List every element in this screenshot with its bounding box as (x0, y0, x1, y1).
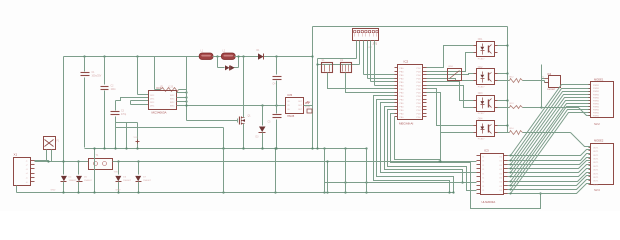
svg-text:PWM1: PWM1 (593, 106, 600, 108)
svg-text:SWC: SWC (170, 98, 175, 100)
wire x440 drop to bus (440, 133, 442, 160)
capacitor C3 (115, 101, 117, 111)
wire JP1 pins down (356, 41, 358, 59)
svg-text:IC1: IC1 (157, 86, 162, 90)
svg-text:OUT1: OUT1 (593, 181, 599, 183)
wire Q2 down to IC2 (346, 73, 395, 93)
svg-text:OUT1: OUT1 (593, 155, 599, 157)
svg-text:SV-2: SV-2 (594, 122, 600, 126)
wire left corner down x63.4 (63, 57, 65, 175)
wire lower bus y161.2 (35, 161, 89, 163)
wire fuse to bus (46, 150, 48, 162)
wire IC2 to OK4 (427, 89, 474, 126)
diode D1 (258, 53, 264, 59)
svg-text:PC817: PC817 (478, 138, 485, 140)
fuse F1 (44, 137, 56, 150)
svg-text:DRC: DRC (150, 102, 155, 104)
svg-text:IC2: IC2 (404, 60, 409, 64)
svg-text:OK1: OK1 (478, 39, 483, 41)
capacitor C1 (83, 55, 85, 57)
crystal Q2 (341, 63, 352, 73)
optocoupler OK2 (477, 69, 495, 85)
wire X1 bottom to gnd bus (16, 186, 18, 193)
svg-text:SV-3: SV-3 (594, 188, 600, 192)
svg-text:DRC: DRC (150, 98, 155, 100)
diode D3 zener (262, 106, 264, 126)
svg-text:GND: GND (51, 190, 56, 192)
wire IC1 out to regulator y104.7 (177, 105, 286, 107)
svg-text:OUT1: OUT1 (593, 184, 599, 186)
wire IC2 to OK1 (427, 46, 474, 68)
wire L2 to D1 (235, 56, 257, 58)
resistor R13 (510, 106, 523, 109)
wire top supply rail y56 (64, 56, 313, 58)
svg-text:OK3: OK3 (478, 93, 483, 95)
svg-text:PWM1: PWM1 (593, 88, 600, 90)
header MODE2 (591, 144, 614, 185)
IC4 RTC (549, 76, 561, 88)
wire diagonal fan to MODE1 (511, 85, 591, 156)
svg-text:OUT1: OUT1 (593, 147, 599, 149)
wire main mid bus y160.9 (113, 161, 477, 163)
svg-text:DS1307: DS1307 (547, 89, 556, 91)
wire IC1 right pins to x186 (177, 92, 187, 94)
optocoupler OK4 (477, 121, 495, 137)
wire regulator out (304, 105, 313, 107)
svg-text:PC817: PC817 (478, 59, 485, 61)
connector X1 (14, 158, 31, 186)
inductor L1 (187, 56, 200, 58)
svg-text:PWM1: PWM1 (593, 94, 600, 96)
wire mosfet source down (243, 124, 245, 149)
wire x275 low drop (275, 149, 277, 193)
wire bus nested L from IC2 lower-left pins (374, 96, 450, 193)
svg-text:PWM1: PWM1 (593, 116, 600, 118)
svg-text:470p: 470p (121, 114, 127, 116)
svg-text:1N4007: 1N4007 (143, 180, 151, 182)
capacitor C5 (276, 106, 278, 114)
IC5 voltage regulator 78L05 (286, 98, 304, 114)
wire x323 x344 x365 drops (324, 149, 326, 183)
svg-text:OUT1: OUT1 (593, 166, 599, 168)
wire horizontals to MODE2 (508, 150, 591, 156)
svg-text:OUT1: OUT1 (593, 162, 599, 164)
wire mid bus y147.7 (85, 148, 367, 150)
svg-text:100u/25V: 100u/25V (92, 75, 102, 77)
wire x94.5 drop (94, 149, 96, 193)
wire OK3 out to MODE1 (498, 107, 510, 109)
wire x186 vertical (186, 57, 188, 121)
svg-text:MODE1: MODE1 (594, 78, 604, 82)
svg-text:1N4007: 1N4007 (69, 180, 77, 182)
svg-text:MEGA8-AI: MEGA8-AI (399, 122, 414, 126)
op-amp IC2 MEGA8-AI (398, 65, 423, 120)
svg-text:IC3: IC3 (484, 148, 489, 152)
optocoupler OK1 (477, 42, 495, 57)
wire x126 drop (126, 123, 128, 148)
svg-text:X1: X1 (14, 153, 18, 157)
capacitor C2 (103, 55, 105, 57)
diode D2 parallel loop (217, 57, 219, 68)
svg-text:SWC: SWC (170, 102, 175, 104)
wire C3 top to IC1 (116, 98, 143, 101)
svg-text:SWC: SWC (170, 106, 175, 108)
svg-text:SWC: SWC (170, 95, 175, 97)
wire y127 bus (116, 127, 224, 129)
diode D5 (78, 162, 80, 175)
wire vertical main x311.6 (312, 27, 314, 149)
wire jp1 branch left x317 (318, 58, 357, 60)
svg-text:RN1: RN1 (449, 66, 454, 68)
svg-text:OK2: OK2 (478, 67, 483, 69)
wire IC1 left pins (143, 94, 149, 96)
wire IC3 right pins fan (504, 155, 508, 157)
svg-text:1N4007: 1N4007 (123, 180, 131, 182)
svg-text:DRC: DRC (150, 95, 155, 97)
wire x222.8 low drop (223, 149, 225, 193)
wire mosfet drain up (243, 57, 245, 118)
svg-text:PWM1: PWM1 (593, 113, 600, 115)
svg-text:PWM1: PWM1 (593, 85, 600, 87)
wire D1 to x311 (265, 56, 313, 58)
svg-text:IC4: IC4 (547, 73, 552, 76)
wire jp1 pins to IC2 pins rows3-6 (364, 74, 395, 76)
svg-text:PC817: PC817 (478, 113, 485, 115)
supply symbol VCC mid (136, 141, 140, 143)
transistor Q1 mosfet (187, 120, 238, 122)
resistor R1 (161, 88, 179, 92)
diode D6 (118, 162, 120, 175)
transformer T1 (89, 159, 113, 170)
capacitor C4 (276, 57, 278, 75)
wire IC2 to OK3 (427, 82, 474, 101)
svg-text:VCC: VCC (134, 137, 139, 139)
resistor R14 (510, 131, 523, 135)
wire IC4 aux vertical x540.8 (542, 78, 545, 80)
diode D7 (138, 162, 140, 175)
svg-text:1N4007: 1N4007 (84, 180, 92, 182)
svg-text:OUT1: OUT1 (593, 159, 599, 161)
svg-text:PWM1: PWM1 (593, 110, 600, 112)
svg-text:PC817: PC817 (478, 87, 485, 89)
svg-text:MODE2: MODE2 (594, 139, 604, 143)
wire OK4 out to MODE2 (498, 132, 510, 134)
inductor L2 (213, 56, 222, 58)
svg-text:DRC: DRC (150, 106, 155, 108)
svg-text:MC34063A: MC34063A (152, 111, 167, 115)
svg-text:OUT1: OUT1 (593, 151, 599, 153)
svg-text:0.33: 0.33 (169, 87, 174, 89)
resistor R12 (510, 79, 523, 83)
diode D4 (61, 176, 67, 181)
svg-text:JP2: JP2 (305, 102, 310, 105)
wire vin rail top y25.6 (313, 26, 508, 28)
svg-text:100n: 100n (111, 89, 117, 91)
svg-text:ULN2003A: ULN2003A (482, 200, 496, 204)
svg-text:IC5: IC5 (288, 93, 293, 97)
svg-text:OK4: OK4 (478, 119, 483, 121)
resistor network RN1 (448, 69, 462, 81)
wire IC3 left pin stubs (477, 155, 481, 157)
wire S1 down to IC2 (328, 73, 395, 89)
wire bus y181.7 from x323 (325, 182, 463, 184)
switch S1 (322, 63, 333, 73)
wire X1 pin1 to fuse (35, 160, 49, 162)
svg-text:78L05: 78L05 (287, 114, 295, 118)
svg-text:OUT1: OUT1 (593, 173, 599, 175)
svg-text:PWR: PWR (305, 107, 311, 109)
svg-text:PWM1: PWM1 (593, 100, 600, 102)
wire gnd bus y192 (17, 192, 454, 194)
IC1 switching regulator MC34063A (149, 91, 177, 110)
optocoupler OK3 (477, 96, 495, 112)
wire OK2 out to IC4 (498, 80, 510, 82)
svg-text:OUT1: OUT1 (593, 170, 599, 172)
svg-text:PWM1: PWM1 (593, 91, 600, 93)
svg-text:GND: GND (116, 190, 121, 192)
svg-text:OUT1: OUT1 (593, 177, 599, 179)
svg-text:PWM1: PWM1 (593, 97, 600, 99)
connector JP1 (353, 29, 379, 41)
header MODE1 (591, 82, 614, 118)
wire x137 rail to IC1 pin (136, 55, 138, 57)
svg-text:PWM1: PWM1 (593, 103, 600, 105)
svg-text:JP1: JP1 (373, 42, 378, 46)
wire x137 drop (137, 123, 139, 148)
wire opto collectors to x506.6 (507, 27, 509, 133)
wire x222.8 drop (223, 128, 225, 149)
IC3 driver ULN2003A (481, 154, 504, 195)
wire x327 drop (327, 162, 329, 193)
wire IC2 to OK2 (427, 74, 474, 75)
